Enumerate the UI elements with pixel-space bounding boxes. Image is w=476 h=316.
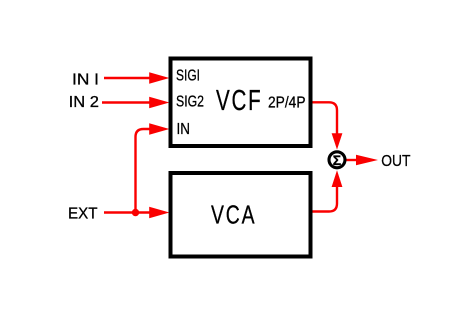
svg-text:VCA: VCA [211,199,257,229]
summer node SIGMA [329,152,345,168]
svg-text:EXT: EXT [68,206,98,223]
svg-text:VCF: VCF [216,85,263,117]
block U2 VCA [171,173,311,257]
svg-text:OUT: OUT [381,153,410,170]
svg-text:Σ: Σ [333,152,341,168]
wire summer to OUT [347,155,379,165]
wire VCF output to summer [311,102,342,149]
svg-text:IN 2: IN 2 [69,94,99,111]
svg-text:2P/4P: 2P/4P [268,95,306,112]
wire IN2 to VCF SIG2 [102,97,169,108]
svg-text:IN: IN [177,121,191,138]
svg-text:SIG2: SIG2 [176,94,204,111]
wire EXT branch to VCF IN pin [136,123,170,212]
svg-text:SIGI: SIGI [176,68,200,85]
wire VCA output to summer [311,170,342,211]
wire IN1 to VCF SIG1 [104,72,169,83]
svg-text:IN I: IN I [72,72,99,89]
junction dot on EXT wire [132,209,139,216]
wire EXT to VCA [104,207,169,218]
block U1 VCF [171,59,311,147]
